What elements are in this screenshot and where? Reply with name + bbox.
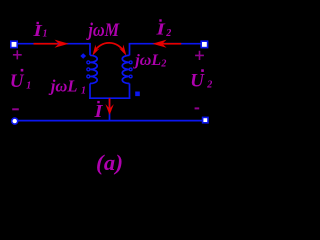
jwM arc right arrowhead [119,45,126,56]
svg-text:2: 2 [165,28,171,39]
terminal bottom-left [12,118,18,124]
svg-text:(a): (a) [96,150,123,175]
wire left stem below coil [89,84,91,100]
svg-text:2: 2 [160,59,166,70]
inductor L1 crossover curls [87,61,90,78]
svg-text:1: 1 [43,29,48,40]
wire top-left rail [16,43,91,45]
wire bottom connector between coils [89,97,130,99]
svg-text:I: I [93,102,104,121]
terminal top-right [201,41,207,47]
wire center tap down [109,98,111,120]
label I2 [155,19,171,39]
wire right stem up to top rail [129,44,131,56]
svg-text:jωL: jωL [48,77,78,96]
inductor L1 coil [90,55,97,83]
wire left stem down to coil [89,44,91,56]
svg-text:1: 1 [26,81,31,92]
inductor L2 coil [122,55,129,83]
svg-text:I: I [155,20,166,39]
svg-text:U: U [190,71,205,92]
mutual inductance arc jwM [94,43,124,52]
label U1 [10,69,31,92]
current I2 arrow [152,40,181,48]
current I arrow (center tap) [105,98,113,115]
jwM arc left arrowhead [92,45,99,56]
polarity dot right (square) [135,92,140,97]
current I1 arrow [34,40,69,48]
svg-text:jωL: jωL [132,52,161,69]
svg-text:U: U [10,71,25,92]
wire right stem below coil [129,84,131,100]
minus sign right port [195,107,200,109]
label I (tap current) [93,101,104,122]
svg-text:2: 2 [206,79,212,90]
minus sign left port [12,108,19,110]
svg-text:jωM: jωM [86,19,120,40]
label jwL2 [132,52,166,70]
label I1 [32,22,47,41]
wire bottom rail [17,120,203,122]
plus sign right port [195,51,204,60]
label U2 [190,69,212,91]
plus sign left port [13,50,22,59]
inductor L2 crossover curls [129,61,132,78]
terminal bottom-right [203,117,208,122]
wire top-right rail [129,43,202,45]
svg-text:1: 1 [81,86,86,97]
terminal top-left [11,41,17,47]
polarity dot left (diamond) [80,53,86,59]
label jwL1 [48,77,86,97]
